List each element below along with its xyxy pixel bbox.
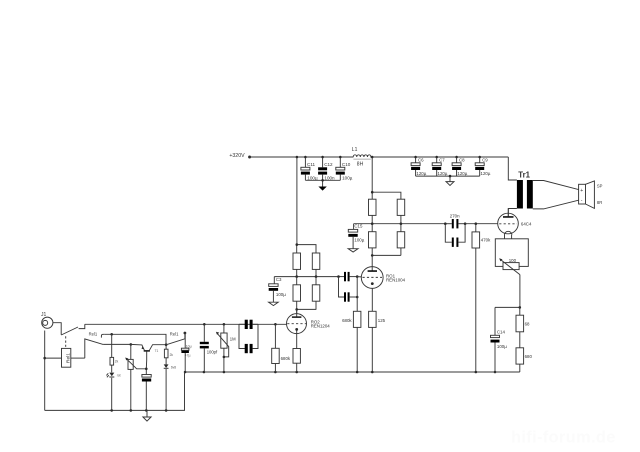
resistor RO2 cathode — [293, 331, 300, 373]
svg-text:C8: C8 — [459, 157, 465, 162]
wire RO2 plate feed — [296, 156, 317, 253]
resistor RO2 plate load lower-right — [312, 277, 320, 310]
triode RO1 REN1004 — [361, 267, 405, 289]
svg-text:64C4: 64C4 — [521, 221, 532, 226]
svg-text:C3: C3 — [276, 277, 282, 282]
wire cathode node to C14 — [495, 306, 521, 309]
potentiometer 100 hum balance — [499, 258, 520, 275]
capacitor input coupling bottom — [239, 324, 258, 353]
resistor RO2 plate load lower-left — [293, 277, 301, 310]
capacitor input coupling top — [239, 320, 258, 329]
relay contact 2 — [85, 334, 105, 358]
svg-text:C9: C9 — [482, 157, 488, 162]
wire RO1 plate join — [371, 254, 401, 267]
svg-text:68: 68 — [525, 322, 530, 327]
svg-text:C6: C6 — [418, 157, 424, 162]
ground (C6-C9 bank) — [446, 175, 454, 186]
wire B+ to Tr1 primary — [508, 157, 517, 180]
relay contact 1 Rel1 (input) — [61, 324, 85, 335]
svg-text:100µ: 100µ — [276, 292, 286, 297]
capacitor 270n bottom — [445, 224, 465, 247]
capacitor 270n top — [444, 213, 466, 228]
svg-text:+320V: +320V — [229, 153, 245, 159]
svg-text:+: + — [580, 188, 583, 194]
capacitor 100pf — [200, 324, 218, 372]
wire signal line to RO2 grid — [85, 323, 287, 326]
ground (bottom center) — [143, 410, 151, 421]
svg-text:hifi-forum.de: hifi-forum.de — [511, 429, 616, 447]
wire 64C4 plate to Tr1 primary — [508, 209, 517, 217]
svg-text:C10: C10 — [342, 162, 351, 167]
wire J1 sleeve to ground — [43, 331, 46, 411]
wire RO1 plate feed — [371, 156, 401, 200]
wire ground rail left lower — [45, 372, 185, 412]
svg-text:C11: C11 — [307, 162, 316, 167]
svg-text:6v8: 6v8 — [171, 365, 176, 369]
svg-text:Tr1: Tr1 — [518, 170, 530, 179]
resistor 680k RO1 grid leak — [342, 277, 361, 372]
wire pot wiper down — [519, 275, 521, 308]
svg-text:680k: 680k — [281, 356, 291, 361]
svg-text:270n: 270n — [450, 213, 460, 218]
potentiometer 1M — [216, 324, 236, 372]
capacitor coupling RO2-RO1 top — [337, 272, 358, 281]
relay coil Rel1 — [45, 348, 85, 367]
svg-text:120µ: 120µ — [457, 171, 467, 176]
capacitor C12 100n — [318, 156, 335, 181]
svg-text:100µ: 100µ — [497, 344, 507, 349]
triode 64C4 — [498, 209, 532, 239]
ground (C15) — [348, 237, 358, 252]
svg-text:100µ: 100µ — [342, 176, 353, 181]
svg-text:680k: 680k — [342, 318, 352, 323]
wire Tr1 secondary to speaker - — [533, 200, 579, 209]
capacitor C11 100u — [301, 156, 318, 181]
resistor 2k (x166) — [164, 345, 173, 358]
capacitor C9 120u — [475, 156, 491, 176]
svg-text:C14: C14 — [497, 329, 506, 334]
trimmer potentiometer — [125, 344, 146, 410]
capacitor C6 120u — [411, 156, 427, 176]
LED indicator — [106, 365, 120, 410]
svg-text:REN1204: REN1204 — [311, 324, 331, 329]
connector J1 — [41, 312, 53, 328]
wire RO2 mid node — [274, 275, 338, 278]
svg-text:L1: L1 — [352, 147, 358, 153]
resistor RO1 plate load lower-right — [397, 224, 405, 256]
svg-text:Rel1: Rel1 — [89, 331, 98, 336]
resistor RO2 plate load upper-left — [293, 253, 301, 277]
wire 64C4 grid — [465, 222, 498, 225]
resistor RO1 plate load lower-left — [369, 224, 377, 256]
wire T1 base down — [145, 352, 148, 375]
wire RO1 grid — [357, 276, 361, 278]
relay link (dashed) — [65, 336, 67, 348]
resistor RO2 plate load upper-right — [312, 253, 320, 277]
capacitor 47u (electrolytic) — [181, 333, 191, 372]
svg-text:T1: T1 — [155, 349, 159, 353]
wire contact2 arm to T1 emitter — [103, 343, 132, 346]
wire B+ rail right of L1 — [370, 156, 508, 158]
svg-text:Rel1: Rel1 — [65, 353, 71, 363]
svg-text:120µ: 120µ — [481, 171, 491, 176]
capacitor T1 base (electrolytic) — [142, 375, 151, 411]
wire Tr1 secondary to speaker + — [533, 181, 579, 190]
capacitor C7 120u — [432, 156, 448, 176]
wire J1 to relay contact 1 — [53, 323, 61, 335]
wire RO1 mid node to 64C4 grid — [354, 222, 446, 225]
svg-text:rot: rot — [117, 374, 121, 378]
svg-text:C12: C12 — [324, 162, 333, 167]
wire ground rail right — [184, 371, 520, 374]
svg-text:+7µ: +7µ — [185, 354, 191, 358]
svg-text:2k: 2k — [115, 360, 119, 364]
svg-text:125: 125 — [378, 318, 386, 323]
svg-text:C7: C7 — [439, 157, 445, 162]
svg-text:2k: 2k — [170, 353, 174, 357]
svg-text:100µ: 100µ — [354, 237, 364, 242]
resistor 68 — [516, 307, 530, 331]
ground (C3) — [269, 291, 279, 306]
resistor 470k — [472, 224, 491, 372]
svg-text:REN1004: REN1004 — [386, 278, 406, 283]
svg-text:SP: SP — [597, 184, 603, 189]
svg-text:C15: C15 — [354, 224, 363, 229]
wire RO2 plate join — [295, 308, 316, 314]
svg-text:8R: 8R — [597, 200, 602, 205]
svg-text:120µ: 120µ — [416, 171, 426, 176]
resistor 680k RO2 grid leak — [272, 324, 291, 372]
speaker SP 8R — [579, 181, 603, 209]
transformer Tr1 — [517, 170, 533, 208]
resistor 125 RO1 cathode — [369, 285, 386, 372]
svg-text:680: 680 — [525, 354, 533, 359]
svg-text:Rel1: Rel1 — [170, 332, 179, 337]
svg-text:10µ: 10µ — [186, 344, 192, 348]
relay contact 3 — [166, 332, 186, 345]
resistor RO1 plate load upper-left — [369, 199, 377, 224]
capacitor C14 100u — [491, 307, 508, 373]
capacitor coupling RO2-RO1 bottom — [339, 277, 359, 302]
resistor bias (x112) — [110, 334, 119, 365]
capacitor C10 100u — [336, 156, 353, 181]
wire cap bank bottom — [305, 179, 340, 181]
wire B+ rail left of L1 — [250, 156, 354, 158]
capacitor C3 100u — [269, 277, 287, 297]
svg-text:8H: 8H — [357, 162, 364, 168]
capacitor C15 100u — [348, 224, 364, 243]
svg-text:120µ: 120µ — [438, 171, 448, 176]
box 64C4 cathode network — [495, 239, 528, 267]
svg-text:100: 100 — [509, 258, 517, 263]
capacitor C8 120u — [452, 156, 468, 176]
resistor RO1 plate load upper-right — [397, 199, 405, 224]
svg-text:1M: 1M — [230, 337, 236, 342]
svg-text:100pf: 100pf — [207, 350, 218, 355]
wire contact2 fixed to T1 collector — [104, 333, 166, 345]
zener diode — [164, 358, 177, 411]
triode RO2 REN1204 — [287, 309, 331, 333]
resistor 680 — [516, 332, 532, 372]
transistor T1 — [131, 343, 168, 352]
wire C6-C9 bottom — [416, 175, 480, 177]
ground (C12 bank) — [318, 179, 326, 191]
svg-text:470k: 470k — [481, 238, 491, 243]
